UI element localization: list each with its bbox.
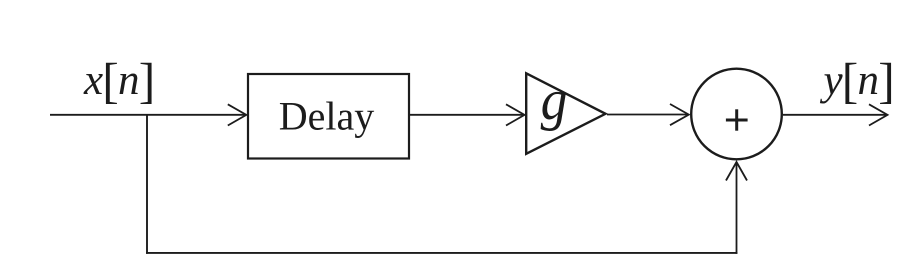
wire: output y[n] <box>783 114 887 116</box>
arrowhead into summer bottom <box>726 162 747 181</box>
wire: bottom feedforward run <box>146 252 737 254</box>
block: Delay box <box>248 74 409 159</box>
wire: junction drop from input <box>146 114 148 254</box>
summer plus horizontal stroke <box>726 119 748 122</box>
wire: input x[n] into Delay <box>50 114 246 116</box>
arrowhead into Delay <box>228 104 247 125</box>
wire: Delay to gain <box>409 114 524 116</box>
summer circle <box>691 69 782 160</box>
wire: rise into summer <box>736 162 738 254</box>
arrowhead into summer left <box>670 104 689 125</box>
svg-text:y[n]: y[n] <box>820 54 894 109</box>
gain triangle <box>526 73 605 154</box>
arrowhead into gain <box>506 104 525 125</box>
summer plus vertical stroke <box>735 109 738 130</box>
arrowhead output <box>869 104 888 125</box>
svg-text:x[n]: x[n] <box>83 54 154 109</box>
svg-text:g: g <box>541 68 568 131</box>
svg-text:Delay: Delay <box>279 94 375 139</box>
wire: gain to summer <box>607 114 688 116</box>
